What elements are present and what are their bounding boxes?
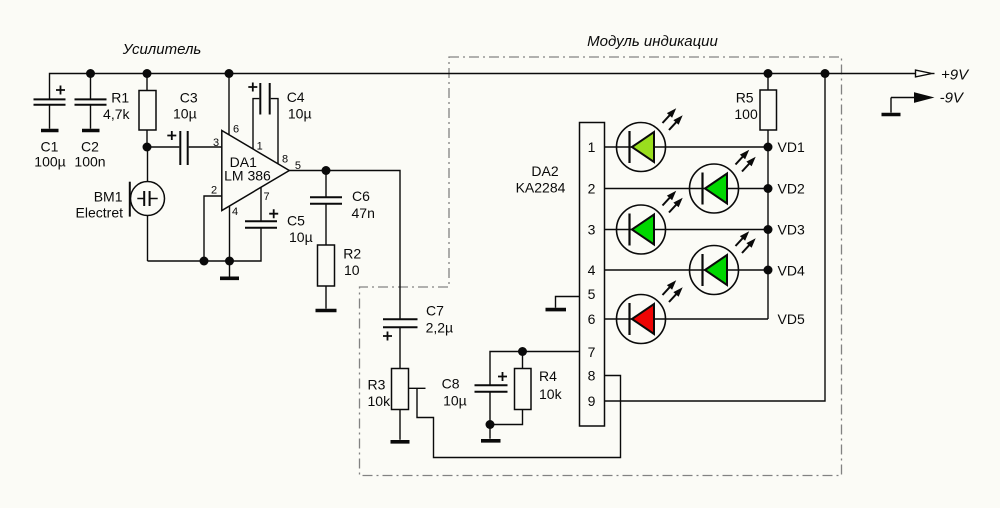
svg-text:6: 6 [588, 311, 596, 327]
svg-text:1: 1 [257, 141, 263, 153]
svg-text:C3: C3 [180, 89, 198, 105]
svg-text:10µ: 10µ [443, 393, 467, 409]
svg-text:7: 7 [588, 344, 596, 360]
svg-text:10k: 10k [539, 386, 563, 402]
svg-text:2,2µ: 2,2µ [426, 319, 454, 335]
svg-text:10µ: 10µ [173, 106, 197, 122]
svg-text:4: 4 [588, 262, 596, 278]
svg-text:2: 2 [588, 181, 596, 197]
svg-text:Модуль индикации: Модуль индикации [587, 33, 718, 50]
svg-text:R5: R5 [736, 90, 754, 106]
svg-text:7: 7 [263, 191, 269, 203]
svg-text:10µ: 10µ [289, 229, 313, 245]
svg-text:R2: R2 [343, 246, 361, 262]
svg-text:100n: 100n [74, 154, 105, 170]
svg-text:VD2: VD2 [778, 181, 805, 197]
svg-text:C5: C5 [287, 213, 305, 229]
svg-text:10: 10 [344, 262, 360, 278]
svg-text:8: 8 [282, 154, 288, 166]
svg-text:+9V: +9V [941, 67, 970, 84]
svg-text:LM 386: LM 386 [224, 167, 271, 183]
svg-text:R1: R1 [111, 90, 129, 106]
svg-text:C7: C7 [426, 303, 444, 319]
svg-text:10µ: 10µ [288, 106, 312, 122]
svg-text:C8: C8 [442, 376, 460, 392]
svg-text:C1: C1 [41, 139, 59, 155]
svg-text:4: 4 [232, 206, 238, 218]
svg-text:6: 6 [233, 123, 239, 135]
svg-text:47n: 47n [352, 205, 375, 221]
svg-text:9: 9 [588, 393, 596, 409]
svg-text:Усилитель: Усилитель [122, 41, 202, 58]
svg-text:100µ: 100µ [34, 154, 65, 170]
svg-text:-9V: -9V [940, 90, 965, 107]
svg-text:R4: R4 [539, 368, 557, 384]
svg-text:DA2: DA2 [531, 163, 558, 179]
svg-text:VD1: VD1 [778, 139, 805, 155]
svg-text:C4: C4 [287, 89, 305, 105]
svg-text:Electret: Electret [76, 204, 124, 220]
svg-text:BM1: BM1 [94, 189, 123, 205]
svg-text:10k: 10k [368, 393, 392, 409]
svg-text:3: 3 [213, 137, 219, 149]
svg-text:KA2284: KA2284 [516, 179, 566, 195]
svg-text:VD5: VD5 [778, 311, 805, 327]
svg-text:R3: R3 [368, 377, 386, 393]
svg-text:100: 100 [734, 106, 758, 122]
svg-text:8: 8 [588, 368, 596, 384]
svg-text:5: 5 [295, 160, 301, 172]
svg-text:3: 3 [588, 222, 596, 238]
svg-text:VD3: VD3 [778, 222, 805, 238]
svg-text:5: 5 [588, 286, 596, 302]
svg-text:2: 2 [211, 185, 217, 197]
svg-text:C2: C2 [81, 139, 99, 155]
svg-text:1: 1 [588, 139, 596, 155]
svg-text:4,7k: 4,7k [103, 106, 130, 122]
svg-text:VD4: VD4 [778, 263, 805, 279]
svg-text:C6: C6 [352, 188, 370, 204]
